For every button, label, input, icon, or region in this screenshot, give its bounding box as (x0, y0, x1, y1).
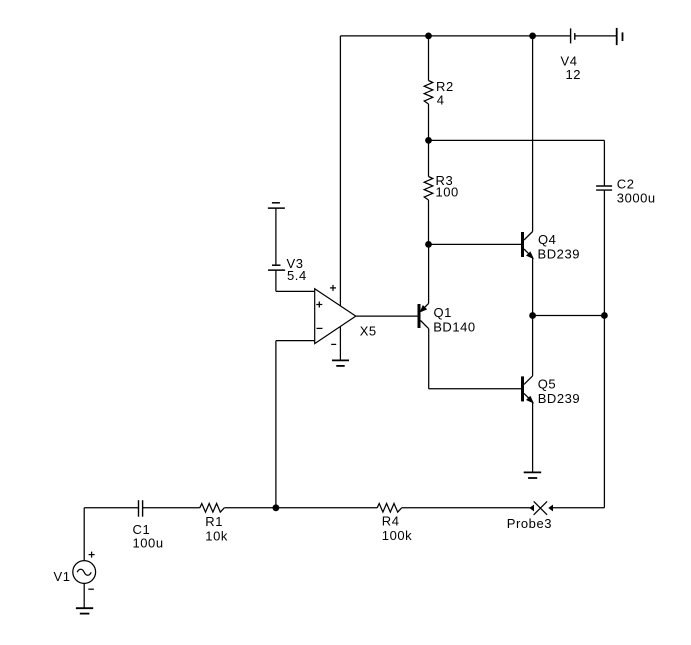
svg-text:100k: 100k (382, 528, 412, 543)
wire op-amp plus input (276, 290, 315, 292)
svg-text:V1: V1 (54, 569, 71, 584)
svg-text:BD239: BD239 (538, 391, 581, 406)
wire op-amp minus input (276, 340, 315, 342)
wire right rail lower (603, 190, 605, 508)
wire Q1 collector down (428, 329, 430, 389)
probe Probe3 (530, 501, 553, 514)
node Q4 emitter junction (529, 312, 536, 319)
wire V1 up (83, 508, 85, 561)
wire Q4 collector rail (532, 36, 534, 232)
svg-text:Probe3: Probe3 (507, 516, 552, 531)
svg-text:100: 100 (436, 185, 459, 200)
wire V1 to C1 (84, 507, 138, 509)
node Q4 base junction (425, 241, 432, 248)
svg-text:100u: 100u (133, 536, 164, 551)
svg-text:R1: R1 (205, 514, 223, 529)
ground Q5 (524, 472, 542, 478)
wire Q1 collector to Q5 base (429, 388, 521, 390)
ground op-amp (332, 360, 349, 366)
capacitor C2 (596, 186, 612, 190)
wire Q5 emitter down (532, 402, 534, 472)
battery V3 (268, 265, 285, 270)
svg-text:C2: C2 (617, 176, 635, 191)
wire R1 to R4 (224, 507, 377, 509)
node top Q4 rail junction (529, 33, 536, 40)
wire feedback vertical (275, 341, 277, 508)
svg-text:R4: R4 (382, 514, 400, 529)
svg-text:Q4: Q4 (538, 232, 556, 247)
node right rail junction (601, 312, 608, 319)
wire branch to right rail (429, 139, 605, 141)
transistor Q1 (418, 303, 429, 328)
source V1 (73, 552, 96, 590)
ground V3 (268, 203, 285, 208)
svg-text:10k: 10k (205, 528, 228, 543)
svg-text:Q5: Q5 (538, 376, 556, 391)
wire Q5 collector up (532, 316, 534, 376)
resistor R2 (424, 81, 433, 105)
wire left supply rail (339, 36, 341, 306)
wire ground to V3 (275, 208, 277, 265)
svg-text:X5: X5 (360, 324, 377, 339)
svg-text:Q1: Q1 (434, 305, 452, 320)
svg-text:V4: V4 (561, 53, 578, 68)
wire C1 to R1 (143, 507, 200, 509)
wire mid rail top (428, 36, 430, 81)
op-amp X5 (315, 285, 356, 345)
wire junction to Q1 emitter (428, 244, 430, 303)
wire op-amp output (356, 315, 418, 317)
svg-text:4: 4 (437, 92, 445, 107)
wire junction to right rail (533, 315, 605, 317)
transistor Q5 (521, 376, 533, 403)
transistor Q4 (521, 232, 533, 259)
wire mid rail R2 to R3 (428, 104, 430, 177)
ground V4 (617, 28, 623, 45)
svg-text:BD140: BD140 (433, 319, 476, 334)
battery V4 (571, 28, 616, 43)
node feedback junction (273, 504, 280, 511)
wire right rail upper (603, 140, 605, 186)
wire Q4 emitter to junction (532, 258, 534, 316)
wire top rail (340, 35, 570, 37)
wire probe to right rail (552, 507, 604, 509)
wire Q4 base (429, 243, 522, 245)
svg-text:C1: C1 (133, 522, 151, 537)
ground V1 (76, 608, 93, 613)
node top R2 junction (425, 33, 432, 40)
resistor R3 (424, 177, 433, 201)
wire V3 to op-amp plus input (275, 270, 277, 291)
wire op-amp negative supply (339, 327, 341, 360)
svg-text:12: 12 (566, 67, 582, 82)
resistor R1 (200, 504, 225, 513)
wire V1 to ground (83, 583, 85, 607)
svg-text:3000u: 3000u (617, 191, 656, 206)
node branch junction (425, 137, 432, 144)
capacitor C1 (139, 500, 143, 517)
wire mid rail R3 to junction (428, 200, 430, 244)
wire R4 to probe (402, 507, 531, 509)
svg-text:BD239: BD239 (538, 246, 581, 261)
svg-text:5.4: 5.4 (287, 268, 307, 283)
resistor R4 (377, 504, 402, 513)
